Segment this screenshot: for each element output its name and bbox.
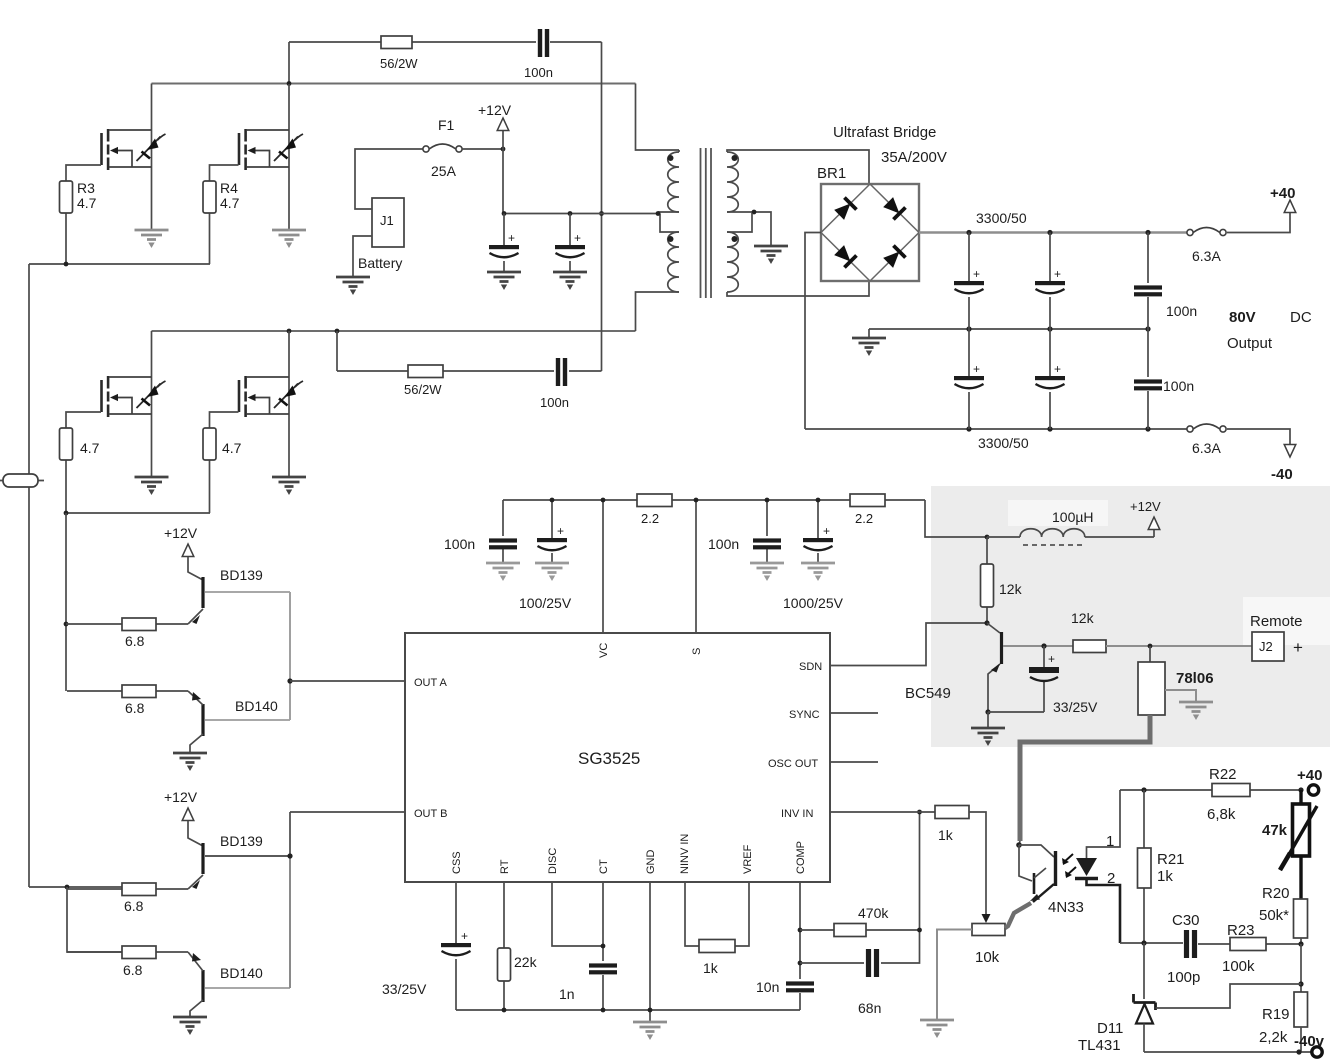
transformer secondary winding 2 — [727, 232, 738, 292]
ground (BD140 upper) — [173, 753, 207, 771]
capacitor 33/25V (remote filter) — [1043, 646, 1045, 712]
wire upper feedback row y=790 — [1120, 789, 1301, 791]
node junction (987,537) — [985, 535, 990, 540]
resistor R20 50k* — [1294, 899, 1308, 938]
node junction (800,930) — [798, 928, 803, 933]
ground (10k pot) — [920, 1020, 954, 1038]
resistor 6.8 (BD140 lower base) — [67, 951, 188, 953]
node junction (919.5,930) — [917, 928, 922, 933]
svg-text:R22: R22 — [1209, 766, 1237, 783]
node junction (1044,646) — [1041, 643, 1046, 648]
wire secondary centre tap to ground — [727, 212, 771, 245]
svg-text:1k: 1k — [1157, 868, 1173, 885]
wire snubber2 row y=371 — [337, 370, 602, 372]
ground (78l06) — [1165, 690, 1196, 701]
resistor 470k feedback — [800, 929, 920, 931]
shunt regulator D11 TL431 — [1143, 943, 1145, 999]
svg-text:BD140: BD140 — [220, 965, 263, 981]
wire mosfet Q3 drain-source vertical — [151, 331, 153, 476]
resistor R3 4.7 gate — [66, 165, 101, 264]
svg-text:C30: C30 — [1172, 912, 1200, 929]
svg-text:56/2W: 56/2W — [404, 382, 442, 397]
svg-text:47k: 47k — [1262, 822, 1288, 839]
node junction (1050,429) — [1047, 426, 1052, 431]
node junction (1150,646) — [1148, 644, 1153, 649]
svg-text:-40v: -40v — [1294, 1033, 1325, 1050]
resistor 2.2 (VCC filter) — [850, 494, 885, 507]
wire 12k to J2 — [1106, 645, 1252, 647]
node junction (603,946) — [601, 944, 606, 949]
svg-text:INV IN: INV IN — [781, 808, 813, 820]
svg-text:+12V: +12V — [164, 789, 198, 805]
svg-text:Ultrafast Bridge: Ultrafast Bridge — [833, 124, 936, 141]
svg-text:-40: -40 — [1271, 466, 1293, 483]
ground (100n VCC) — [750, 563, 784, 581]
wire +12V feed to transformer centre tap — [503, 149, 660, 214]
svg-text:6.8: 6.8 — [125, 700, 145, 716]
wire supply corner to 100uH row — [925, 500, 987, 537]
node junction (1144,790) — [1141, 787, 1146, 792]
svg-text:4.7: 4.7 — [220, 195, 240, 211]
capacitor C30 100p — [1184, 930, 1197, 958]
svg-text:100n: 100n — [524, 65, 553, 80]
transistor BD139 upper — [201, 577, 204, 608]
terminal -40 — [1284, 445, 1296, 458]
wire VCC pin riser — [695, 500, 697, 633]
wire battery positive to fuse — [355, 149, 424, 209]
wire feedback vertical to INV node — [919, 812, 921, 930]
wire negative sense rail — [1144, 1051, 1311, 1053]
transistor Q3 power MOSFET — [102, 376, 166, 417]
resistor 1k (NINV-VREF) — [699, 940, 735, 953]
svg-text:SYNC: SYNC — [789, 709, 820, 721]
svg-text:100k: 100k — [1222, 958, 1255, 975]
svg-text:+: + — [1048, 652, 1055, 666]
svg-text:+: + — [1054, 267, 1061, 281]
svg-text:SDN: SDN — [799, 661, 822, 673]
node junction (503,149) — [501, 147, 506, 152]
capacitor electrolytic (battery rail 1) — [503, 214, 505, 272]
regulator 78l06 — [1149, 646, 1151, 662]
node junction (1148,429) — [1145, 426, 1150, 431]
svg-text:+: + — [1054, 362, 1061, 376]
svg-text:4.7: 4.7 — [77, 195, 97, 211]
optocoupler 4N33 LED — [1087, 790, 1121, 858]
node junction (504,1010) — [502, 1008, 507, 1013]
terminal +40 — [1284, 200, 1296, 213]
svg-text:100p: 100p — [1167, 969, 1200, 986]
svg-text:BD139: BD139 — [220, 567, 263, 583]
svg-text:R23: R23 — [1227, 922, 1255, 939]
svg-text:1: 1 — [1106, 833, 1114, 850]
svg-text:12k: 12k — [1071, 610, 1095, 626]
svg-text:22k: 22k — [514, 954, 538, 970]
node junction (1148,329) — [1145, 326, 1150, 331]
resistor 12k (BC549 collector pull-up) — [986, 537, 988, 622]
svg-text:CSS: CSS — [451, 851, 463, 874]
wire driver input rail x=67 — [65, 513, 67, 691]
wire VCC supply row y=500 — [503, 499, 925, 501]
svg-text:+40: +40 — [1297, 767, 1322, 784]
ground (100/25V) — [535, 563, 569, 581]
svg-text:3300/50: 3300/50 — [978, 435, 1029, 451]
bridge rectifier BR1 diamond — [821, 184, 919, 281]
node junction (1144,943) — [1141, 940, 1146, 945]
svg-text:100n: 100n — [1163, 378, 1194, 394]
wire drain rail upper mosfet row — [152, 83, 636, 85]
svg-text:GND: GND — [645, 850, 657, 875]
svg-text:100n: 100n — [540, 395, 569, 410]
resistor R22 6,8k — [1212, 784, 1250, 797]
svg-text:1k: 1k — [703, 960, 719, 976]
svg-text:6.8: 6.8 — [123, 962, 143, 978]
svg-text:OUT A: OUT A — [414, 677, 447, 689]
wire INV IN to 1k — [830, 811, 935, 813]
svg-text:R19: R19 — [1262, 1006, 1290, 1023]
wire positive output rail — [919, 231, 1188, 233]
resistor series element at left edge — [0, 480, 44, 482]
connector J2 Remote — [1252, 632, 1284, 661]
node junction (66,264) — [64, 262, 69, 267]
wire lower feedback row y=944 — [1120, 943, 1301, 944]
svg-text:VC: VC — [598, 643, 610, 658]
capacitor 100n (top snubber) — [538, 29, 542, 57]
resistor 12k (remote) — [1073, 640, 1106, 653]
svg-text:OSC OUT: OSC OUT — [768, 758, 818, 770]
svg-text:CT: CT — [598, 859, 610, 874]
svg-text:+: + — [461, 929, 468, 943]
wire primary winding 2 bottom to lower drain rail — [636, 292, 680, 331]
capacitor 68n feedback — [800, 930, 920, 963]
wire battery negative to ground — [353, 236, 372, 276]
node junction (696,500) — [694, 498, 699, 503]
svg-text:COMP: COMP — [795, 841, 807, 874]
capacitor 100n (VC) — [502, 500, 504, 562]
svg-text:33/25V: 33/25V — [1053, 699, 1098, 715]
svg-text:6.3A: 6.3A — [1192, 248, 1221, 264]
svg-text:+: + — [973, 362, 980, 376]
svg-text:6.8: 6.8 — [125, 633, 145, 649]
node junction (1050,329) — [1047, 326, 1052, 331]
svg-text:1k: 1k — [938, 827, 954, 843]
capacitor 100n (VCC) — [766, 500, 768, 562]
transistor BD140 upper — [201, 704, 204, 736]
node junction (1299,1052) — [1296, 1049, 1301, 1054]
svg-text:2: 2 — [1107, 870, 1115, 887]
svg-text:100n: 100n — [708, 536, 739, 552]
node junction (290,856) — [287, 853, 292, 858]
svg-text:3300/50: 3300/50 — [976, 210, 1027, 226]
node phase dot (primary 2) — [668, 236, 674, 242]
svg-text:D11: D11 — [1097, 1020, 1123, 1037]
wire mosfet Q1 drain-source vertical — [151, 84, 153, 230]
resistor R23 100k — [1230, 938, 1266, 951]
node junction (1301,944) — [1298, 941, 1303, 946]
node phase dot (secondary 1) — [732, 155, 738, 161]
svg-text:BD139: BD139 — [220, 833, 263, 849]
node junction (818,500) — [816, 498, 821, 503]
svg-text:100/25V: 100/25V — [519, 595, 572, 611]
node junction (601.5,213.5) — [599, 211, 604, 216]
svg-text:J1: J1 — [380, 213, 394, 228]
svg-text:+: + — [973, 267, 980, 281]
svg-text:+: + — [823, 524, 830, 538]
wire driver A output column — [289, 592, 291, 720]
wire top snubber rail 1 — [289, 41, 602, 43]
node junction (66,513) — [64, 511, 69, 516]
svg-text:R4: R4 — [220, 180, 238, 196]
node junction (67,887) — [65, 885, 70, 890]
svg-text:470k: 470k — [858, 905, 889, 921]
svg-text:2.2: 2.2 — [855, 511, 873, 526]
svg-text:+40: +40 — [1270, 185, 1295, 202]
svg-text:10k: 10k — [975, 949, 1000, 966]
node junction (289,84) — [287, 81, 292, 86]
node phase dot (secondary 2) — [732, 236, 738, 242]
svg-text:+: + — [557, 524, 564, 538]
node junction (1148,232.5) — [1145, 230, 1150, 235]
resistor 4.7 gate Q3 — [66, 412, 101, 513]
fuse F1 25A — [423, 144, 462, 152]
wire SYNC stub — [830, 712, 878, 714]
wire left rail x=29 — [28, 264, 30, 887]
node junction (337,331) — [335, 329, 340, 334]
wire DISC to CT — [552, 882, 603, 946]
resistor 6.8 (BD139 upper base) — [66, 623, 188, 625]
svg-text:Output: Output — [1227, 335, 1273, 352]
svg-text:2,2k: 2,2k — [1259, 1029, 1288, 1046]
capacitor 10n (COMP) — [786, 981, 814, 992]
transistor BD140 lower — [201, 970, 204, 1002]
wire analog bottom bus y=1010 — [456, 1009, 800, 1011]
svg-text:100µH: 100µH — [1052, 509, 1094, 525]
svg-text:35A/200V: 35A/200V — [881, 149, 947, 166]
node junction (570,213.5) — [568, 211, 573, 216]
svg-text:33/25V: 33/25V — [382, 981, 427, 997]
svg-text:NINV IN: NINV IN — [679, 834, 691, 874]
wire lower gate bus y=513 — [66, 512, 210, 514]
fuse 6.3A (- rail) — [1187, 424, 1226, 432]
node junction (800,963) — [798, 961, 803, 966]
battery J1 — [372, 198, 404, 247]
ground (output mid rail) — [868, 329, 870, 337]
resistor 4.7 gate Q4 — [210, 412, 239, 513]
node junction (290,681) — [287, 678, 292, 683]
resistor R19 2,2k — [1294, 992, 1308, 1027]
svg-text:Battery: Battery — [358, 255, 402, 271]
node junction (658,213.5) — [656, 211, 661, 216]
resistor 56/2W (top snubber) — [381, 36, 412, 49]
resistor R21 1k — [1143, 790, 1145, 943]
svg-text:VREF: VREF — [742, 844, 754, 874]
svg-text:4N33: 4N33 — [1048, 899, 1084, 916]
inductor 100uH — [987, 529, 1154, 537]
capacitor 100n (lower snubber) — [556, 358, 560, 386]
wire mosfet Q2 drain-source vertical — [288, 84, 290, 229]
resistor 22k (RT) — [503, 882, 505, 1010]
wire secondary winding1 top to bridge AC1 — [727, 150, 869, 184]
wire snubber right vertical x=601.5 to +12V centre tap — [601, 42, 603, 371]
capacitor 33/25V soft start — [441, 943, 471, 955]
capacitor 100n output bottom — [1147, 329, 1149, 429]
wire driver B output column — [289, 812, 291, 856]
node junction (67,624) — [64, 622, 69, 627]
wire secondary winding2 bottom to bridge AC2 — [727, 281, 869, 296]
bridge rectifier BR1 box — [821, 184, 919, 281]
capacitor 1000/25V — [817, 500, 819, 562]
svg-text:R21: R21 — [1157, 851, 1185, 868]
resistor 6.8 (BD139 lower base) — [67, 888, 188, 890]
wire OSC OUT stub — [830, 761, 878, 763]
svg-text:78l06: 78l06 — [1176, 670, 1214, 687]
svg-text:R20: R20 — [1262, 885, 1290, 902]
wire mosfet Q4 drain-source vertical — [288, 331, 290, 476]
terminal -40v — [1312, 1047, 1322, 1057]
wire COMP pin column — [799, 882, 801, 1010]
svg-text:SG3525: SG3525 — [578, 749, 640, 768]
svg-text:DC: DC — [1290, 309, 1312, 326]
resistor 56/2W (lower snubber) — [408, 365, 443, 378]
node junction (767,500) — [765, 498, 770, 503]
wire NINV IN to VREF via 1k — [685, 882, 749, 946]
power +12V (battery) — [502, 131, 504, 149]
svg-text:TL431: TL431 — [1078, 1037, 1121, 1054]
ground (Q3 source) — [135, 477, 169, 495]
node junction (969,429) — [966, 426, 971, 431]
ground (Q4 source) — [272, 477, 306, 495]
node junction (754,212) — [752, 210, 757, 215]
fuse 6.3A (+ rail) — [1187, 228, 1226, 236]
wire lower mosfet drain rail y=331 — [152, 330, 636, 332]
svg-text:50k*: 50k* — [1259, 907, 1289, 924]
ground (Q1 source) — [135, 230, 169, 248]
wire INV node to 10k wiper — [969, 812, 986, 914]
node junction (603,500) — [601, 498, 606, 503]
svg-text:1000/25V: 1000/25V — [783, 595, 844, 611]
svg-text:6.8: 6.8 — [124, 898, 144, 914]
diode bridge D-topright — [882, 196, 905, 219]
resistor R4 4.7 gate — [210, 165, 239, 264]
ground (BD140 lower) — [173, 1017, 207, 1035]
wire BC549 emitter to cap bottom — [988, 711, 1044, 713]
wire R20/R23 node to R19 — [1300, 944, 1302, 992]
node junction (1050,232.5) — [1047, 230, 1052, 235]
capacitor 3300/50 bottom-1 — [968, 329, 970, 429]
wire TL431 ref to divider — [1156, 984, 1302, 1008]
svg-text:Remote: Remote — [1250, 613, 1303, 630]
transformer secondary winding 1 — [727, 152, 738, 212]
ground (100n VC) — [486, 563, 520, 581]
capacitor 3300/50 top-2 — [1049, 233, 1051, 330]
wire riser snubber1 left to drain rail — [288, 42, 290, 84]
svg-text:+12V: +12V — [164, 525, 198, 541]
node phase dot (primary 1) — [668, 155, 674, 161]
wire CT pin — [602, 882, 604, 1010]
svg-text:25A: 25A — [431, 163, 457, 179]
wire thick 78l06 output to optocoupler — [1020, 715, 1150, 841]
node junction (969,232.5) — [966, 230, 971, 235]
wire drain rail to primary winding 1 — [636, 84, 673, 151]
wire primary centre tap — [658, 212, 679, 232]
transformer primary winding 2 — [668, 232, 679, 292]
wire lower driver bus y=887 — [29, 886, 122, 888]
wire SDN to BC549 collector — [830, 623, 987, 666]
capacitor electrolytic (battery rail 2) — [569, 214, 571, 272]
ground (battery cap 1) — [487, 272, 521, 290]
wire VC pin riser — [602, 500, 604, 633]
wire fuse to +12V node — [462, 148, 503, 150]
svg-text:DISC: DISC — [547, 848, 559, 874]
node junction (603,1010) — [601, 1008, 606, 1013]
svg-text:OUT B: OUT B — [414, 808, 447, 820]
capacitor 100/25V — [551, 500, 553, 562]
svg-text:68n: 68n — [858, 1000, 881, 1016]
svg-text:100n: 100n — [444, 536, 475, 552]
diode bridge D-bottomleft — [833, 244, 856, 267]
svg-text:100n: 100n — [1166, 303, 1197, 319]
thermistor 47k — [1299, 790, 1302, 899]
node junction (650,1010) — [648, 1008, 653, 1013]
svg-text:BC549: BC549 — [905, 685, 951, 702]
wire OUT A — [290, 680, 405, 682]
ground (SG3525 GND) — [633, 1022, 667, 1040]
wire mid output rail — [869, 328, 1148, 330]
svg-text:+12V: +12V — [1130, 499, 1161, 514]
optocoupler light arrows — [1063, 854, 1076, 876]
resistor 1k (INV input) — [935, 806, 969, 819]
transistor BD139 lower — [201, 843, 204, 874]
wire x=67 stub to lower BD140 base — [67, 887, 122, 952]
wire 10k left to ground — [937, 930, 972, 1020]
capacitor 1n (CT) — [589, 963, 617, 974]
transistor Q1 power MOSFET — [102, 129, 166, 170]
wire upper gate bus y=264 — [29, 263, 210, 265]
svg-text:6,8k: 6,8k — [1207, 806, 1236, 823]
svg-text:12k: 12k — [999, 581, 1023, 597]
transistor BC549 — [987, 623, 1000, 633]
svg-text:56/2W: 56/2W — [380, 56, 418, 71]
svg-text:RT: RT — [499, 859, 511, 874]
ground (BC549 emitter) — [987, 712, 989, 727]
svg-text:2.2: 2.2 — [641, 511, 659, 526]
terminal +40 (sense) — [1298, 787, 1303, 792]
svg-text:80V: 80V — [1229, 309, 1256, 326]
node junction (289,331) — [287, 329, 292, 334]
potentiometer 10k — [982, 914, 991, 923]
svg-text:+: + — [1293, 638, 1303, 657]
IC SG3525 body — [405, 633, 830, 882]
svg-text:+12V: +12V — [478, 102, 512, 118]
node junction (987,623) — [984, 620, 989, 625]
capacitor 3300/50 top-1 — [968, 233, 970, 330]
resistor 6.8 (BD140 upper base) — [67, 690, 188, 692]
svg-text:1n: 1n — [559, 986, 575, 1002]
ground (1000/25V) — [801, 563, 835, 581]
wire snubber2 riser — [336, 331, 338, 371]
power +12V (logic supply) — [1153, 530, 1155, 537]
optocoupler 4N33 phototransistor — [1016, 842, 1022, 848]
node junction (1301,984) — [1298, 981, 1303, 986]
node junction (504,213.5) — [502, 211, 507, 216]
svg-text:10n: 10n — [756, 979, 779, 995]
svg-text:J2: J2 — [1259, 639, 1273, 654]
transistor Q4 power MOSFET — [239, 376, 303, 417]
svg-text:4.7: 4.7 — [222, 440, 242, 456]
transformer primary winding 1 — [668, 152, 679, 212]
svg-text:6.3A: 6.3A — [1192, 440, 1221, 456]
wire OUT B — [290, 811, 405, 813]
node junction (919.5,812) — [917, 810, 922, 815]
